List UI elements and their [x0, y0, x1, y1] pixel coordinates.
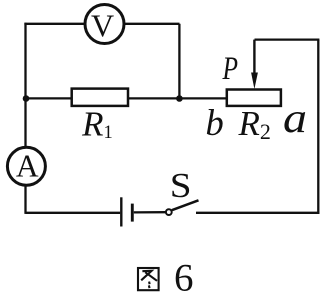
caption glyph 图 — [138, 268, 159, 290]
svg-text:P: P — [222, 51, 238, 87]
svg-text:6: 6 — [174, 257, 194, 297]
wire top horizontal — [24, 23, 179, 25]
resistor R1 — [72, 89, 128, 106]
node junction right — [176, 95, 183, 102]
slider arrow of P — [251, 40, 258, 89]
ammeter U-A — [7, 147, 45, 185]
svg-text:A: A — [16, 149, 39, 184]
battery cell: long plate — [120, 197, 122, 226]
switch S lever — [172, 200, 199, 210]
svg-text:a: a — [283, 96, 307, 142]
rheostat R2 body — [227, 90, 281, 106]
wire middle horizontal — [26, 97, 227, 99]
wire bottom middle segment (battery to switch) — [134, 211, 166, 213]
wire bottom left segment — [26, 212, 121, 214]
wire slider bracket horizontal — [255, 38, 320, 40]
wire vertical between top wire and middle node — [178, 24, 180, 99]
svg-text:b: b — [206, 102, 224, 143]
wire right vertical — [317, 40, 319, 214]
wire bottom right segment (switch to right corner) — [196, 212, 319, 214]
wire left vertical — [24, 23, 26, 214]
voltmeter U-V — [85, 5, 124, 44]
svg-text:V: V — [91, 8, 114, 44]
svg-text:S: S — [170, 166, 192, 205]
battery cell: short thick plate — [131, 204, 134, 222]
switch S pivot — [166, 209, 172, 215]
node junction left — [23, 95, 30, 102]
